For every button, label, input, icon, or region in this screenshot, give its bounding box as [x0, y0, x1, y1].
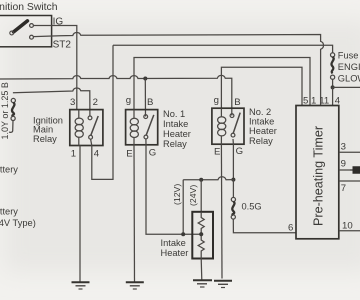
ground (intake heater) — [193, 279, 212, 281]
ignition switch contact ST2 — [30, 35, 34, 39]
wire No.2 relay E to ground (hopped by 12V/24V feed line) — [220, 144, 223, 278]
No.2 relay coil — [220, 108, 222, 116]
svg-text:ENGINE: ENGINE — [338, 62, 360, 72]
wire from fuse junction to right edge — [333, 86, 360, 88]
battery feed bus line A (from left edge to No.2 relay terminal B) — [0, 75, 232, 115]
ground (No.1 relay coil) — [126, 281, 144, 283]
svg-text:3: 3 — [341, 141, 346, 152]
wire No.2 relay G down to junction — [232, 139, 234, 180]
wire 0.5G to timer terminal 6 — [233, 219, 296, 233]
No.2 relay switch contact moving — [231, 133, 235, 137]
heater feed line with hop over No.2 relay E wire — [183, 177, 233, 180]
ignition main relay coil — [78, 110, 80, 118]
ignition main relay switch contact fixed — [88, 116, 92, 120]
junction node on No.2 relay G wire — [231, 178, 235, 182]
No.1 relay switch contact fixed — [144, 115, 148, 119]
ignition switch rotor blade — [14, 21, 28, 32]
0.5G fusible link on No.2 relay G wire — [232, 180, 234, 198]
junction node 12V on centre-tap line — [181, 232, 185, 236]
svg-text:1: 1 — [71, 149, 76, 160]
svg-text:Intake: Intake — [161, 238, 186, 248]
svg-text:(24V): (24V) — [188, 185, 198, 206]
wire timer terminal 9 with connector arrow — [339, 169, 353, 171]
wire relay terminal 1 to ground — [79, 146, 81, 283]
junction node on bus A feeding No.1 relay terminal B — [143, 77, 147, 81]
svg-text:B: B — [147, 97, 153, 108]
wire No.1 relay terminal B drop — [144, 79, 146, 117]
svg-text:6: 6 — [288, 222, 293, 233]
svg-text:IG: IG — [53, 16, 64, 27]
centre tap node of intake heater — [199, 232, 203, 236]
wire timer terminal 3 to right edge — [339, 151, 360, 153]
svg-text:GLOW: GLOW — [338, 74, 360, 84]
No.2 relay switch blade — [233, 113, 240, 134]
fusible link 1.0Y or 1.25B — [11, 98, 15, 102]
svg-text:Pre-heating Timer: Pre-heating Timer — [312, 126, 326, 226]
svg-text:Intake: Intake — [163, 119, 188, 129]
wire (24V) — [200, 180, 202, 213]
svg-text:Relay: Relay — [249, 136, 273, 146]
svg-text:4: 4 — [94, 148, 100, 159]
No.2 intake heater relay box — [212, 108, 244, 144]
svg-text:G: G — [236, 146, 243, 157]
svg-text:11: 11 — [319, 96, 329, 107]
svg-text:(24V Type): (24V Type) — [0, 218, 36, 228]
svg-text:Relay: Relay — [163, 139, 187, 149]
ground (No.2 relay coil) — [214, 280, 232, 282]
svg-text:4: 4 — [335, 96, 341, 107]
svg-text:E: E — [126, 148, 132, 159]
svg-text:9: 9 — [341, 158, 346, 169]
No.1 relay coil — [133, 110, 135, 119]
svg-text:Battery: Battery — [0, 164, 18, 174]
No.1 relay switch blade — [146, 115, 154, 135]
ground (ignition main relay coil) — [72, 281, 90, 283]
ignition switch contact IG — [30, 24, 34, 28]
svg-text:10: 10 — [342, 220, 353, 231]
fuse ENGINE GLOW — [331, 53, 335, 57]
wire timer terminal 7 to right edge — [339, 180, 360, 182]
svg-text:Relay: Relay — [33, 134, 57, 144]
intake heater resistor element — [198, 212, 204, 259]
ignition main relay switch blade — [91, 116, 98, 135]
svg-text:3: 3 — [70, 97, 75, 108]
svg-text:1.0Y or 1.25 B: 1.0Y or 1.25 B — [0, 82, 10, 139]
No.1 relay switch contact moving — [144, 135, 148, 139]
wire intake heater to ground — [200, 259, 203, 281]
svg-text:Ignition Switch: Ignition Switch — [0, 2, 58, 13]
pre-heating timer box — [296, 106, 339, 239]
wire No.1 relay terminal 9 to timer terminal 1 — [134, 58, 310, 110]
svg-text:B: B — [234, 97, 240, 108]
wire relay terminal 4 to fuse feed riser — [91, 45, 113, 179]
svg-text:No. 1: No. 1 — [163, 109, 185, 119]
svg-text:E: E — [214, 146, 220, 157]
svg-text:Heater: Heater — [163, 129, 191, 139]
junction node below fuse — [331, 85, 335, 89]
ignition main relay box — [70, 110, 103, 146]
svg-text:No. 2: No. 2 — [249, 107, 271, 117]
svg-text:Fuse: Fuse — [338, 50, 359, 60]
svg-text:Intake: Intake — [249, 117, 274, 127]
wire fuse to junction — [332, 79, 334, 87]
ignition switch IG/SW box — [0, 16, 52, 47]
svg-text:Heater: Heater — [249, 126, 277, 136]
connector arrow on terminal 9 wire — [350, 167, 360, 173]
svg-text:7: 7 — [341, 183, 346, 194]
svg-text:Heater: Heater — [161, 248, 189, 258]
intake heater box — [192, 212, 213, 259]
junction node 24V tap — [199, 178, 203, 182]
fuse feed line to fuse ENGINE GLOW — [113, 45, 333, 53]
wire (12V) — [182, 180, 184, 235]
svg-text:Battery: Battery — [0, 207, 18, 217]
ignition switch pivot contact — [10, 31, 14, 35]
ignition main relay switch contact moving — [89, 135, 93, 139]
wire IG from switch to node above relay terminal 3 — [34, 26, 77, 110]
svg-text:G: G — [149, 148, 156, 159]
svg-text:2: 2 — [93, 97, 98, 108]
svg-text:1: 1 — [311, 96, 316, 107]
wire ST2 bus to timer terminal 11 (hops IG wire, hops fuse feed line) — [34, 32, 324, 105]
No.1 intake heater relay box — [126, 110, 158, 145]
wire timer terminal 10 to right edge — [339, 230, 360, 232]
svg-text:(12V): (12V) — [172, 184, 182, 205]
wire No.1 relay G to intake heater centre tap — [146, 139, 201, 234]
wire fuse junction to timer terminal 4 — [332, 87, 334, 105]
svg-text:g: g — [126, 95, 131, 106]
battery fusible link wire (line B) to ignition main relay terminal 2 — [13, 88, 90, 117]
No.2 relay switch contact fixed — [230, 114, 234, 118]
svg-text:5: 5 — [303, 96, 308, 107]
svg-text:ST2: ST2 — [53, 40, 72, 51]
svg-text:g: g — [214, 95, 219, 106]
svg-text:0.5G: 0.5G — [242, 202, 262, 212]
wire No.1 relay E to ground — [133, 145, 136, 282]
wire No.2 relay terminal 9 to timer terminal 5 — [221, 67, 302, 108]
